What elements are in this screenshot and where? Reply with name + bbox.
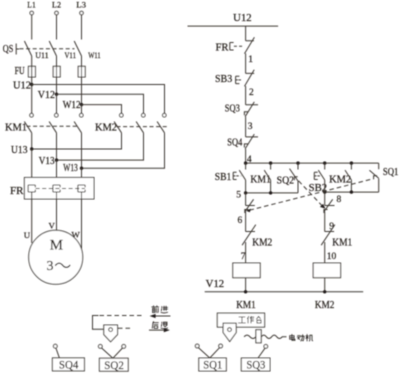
wire 6 — [245, 211, 247, 231]
worktable box — [217, 313, 264, 327]
wire 3 — [245, 117, 247, 137]
dog (cam) left — [104, 325, 118, 342]
switch QS — [3, 41, 82, 56]
limit switch SQ1 NC contact (left leg) — [245, 193, 255, 213]
svg-text:W13: W13 — [63, 163, 77, 174]
svg-text:L2: L2 — [52, 0, 61, 10]
arrow forward (left) — [150, 314, 171, 318]
node W12 — [63, 100, 83, 111]
wire 2 — [245, 86, 247, 105]
svg-text:3: 3 — [248, 122, 253, 132]
contactor aux KM1 (self-hold NO) — [250, 163, 271, 193]
svg-text:SQ4: SQ4 — [227, 138, 243, 149]
node 8 rail — [325, 191, 379, 193]
svg-text:1: 1 — [248, 55, 253, 65]
svg-text:V13: V13 — [39, 156, 55, 167]
wire nodes to KM1 contacts — [32, 85, 82, 114]
svg-text:6: 6 — [238, 216, 243, 226]
label gongzuotai (worktable) — [238, 316, 261, 323]
svg-text:KM1: KM1 — [5, 123, 27, 134]
linkage dash SQ1 — [246, 179, 373, 213]
limit switch SQ2 (NO) — [277, 163, 298, 193]
node U12 (control) — [188, 13, 279, 26]
junction dots on V12 bus — [244, 290, 326, 293]
label houtui (backward) — [152, 322, 167, 329]
svg-text:KM2: KM2 — [315, 300, 335, 311]
node 5 rail — [246, 192, 298, 194]
thermal contact FR (NC) — [216, 37, 255, 53]
svg-text:8: 8 — [337, 195, 342, 205]
svg-text:SQ2: SQ2 — [104, 360, 124, 372]
pushbutton SB2 (reverse start, NO) — [309, 163, 328, 194]
svg-text:KM2: KM2 — [252, 238, 272, 249]
wire 9 — [324, 211, 326, 231]
wire FR to motor — [32, 192, 82, 250]
wire coil KM1 to V12 — [245, 278, 247, 292]
wire U12 to FR contact — [245, 26, 247, 41]
limit switch SQ2 NC contact (right leg) — [324, 192, 335, 213]
contactor interlock KM2 (NC) — [242, 225, 272, 263]
wire KM2 c1 to node U13 — [32, 133, 122, 149]
thermal relay FR heaters — [10, 178, 94, 200]
svg-text:SQ4: SQ4 — [59, 360, 79, 372]
svg-text:U12: U12 — [13, 81, 31, 92]
wire L1 drop — [31, 15, 33, 40]
junction dots on node 5 rail — [244, 191, 247, 194]
wire U12 to KM2 contact 3 — [32, 85, 165, 114]
contactor KM2 main contacts — [95, 113, 168, 133]
limit switch SQ4 (NC) — [227, 134, 258, 149]
svg-text:W11: W11 — [88, 50, 101, 60]
node U12 — [13, 81, 33, 92]
pushbutton SB1 (forward start, NO) — [215, 163, 246, 193]
limit switch SQ3 (physical) — [241, 345, 270, 372]
motor M 3~ — [29, 230, 83, 284]
svg-text:SB3: SB3 — [215, 74, 232, 85]
wire QS to fuses — [32, 56, 82, 66]
wire fuse to nodes — [32, 77, 82, 105]
svg-text:V12: V12 — [206, 279, 225, 290]
label qianjin (forward) — [152, 306, 168, 313]
svg-text:4: 4 — [247, 155, 252, 165]
node V13 — [39, 156, 58, 167]
wire V12 to KM2 contact 2 — [57, 94, 144, 113]
svg-text:10: 10 — [327, 252, 337, 262]
svg-text:L1: L1 — [27, 0, 36, 10]
wire KM1 c2 to node V13 — [56, 133, 58, 160]
linkage dash SQ2 — [299, 181, 326, 209]
limit switch SQ1 (NO) — [369, 163, 398, 192]
svg-text:SQ1: SQ1 — [203, 360, 222, 372]
wire KM2 c3 to node W13 — [82, 133, 165, 168]
dog bracket (moving dashed outline) — [93, 316, 143, 330]
svg-text:M: M — [50, 238, 63, 254]
svg-text:SQ2: SQ2 — [277, 176, 295, 187]
motor coupling — [244, 330, 286, 343]
label diandongji (motor) — [290, 334, 313, 341]
arrow backward (right) — [149, 328, 170, 332]
svg-text:W12: W12 — [63, 100, 81, 111]
svg-text:U: U — [24, 230, 31, 240]
svg-text:FR: FR — [10, 186, 24, 197]
svg-text:KM1: KM1 — [236, 300, 256, 311]
contactor KM1 main contacts — [5, 113, 83, 133]
wire KM1 c1 to node U13 — [31, 133, 33, 149]
svg-text:V11: V11 — [65, 50, 77, 60]
wire 1 — [245, 53, 247, 73]
svg-text:U13: U13 — [11, 145, 28, 156]
contactor interlock KM1 (NC) — [321, 225, 352, 263]
svg-text:3: 3 — [47, 259, 54, 274]
svg-text:V: V — [49, 221, 56, 231]
svg-text:KM1: KM1 — [332, 238, 352, 249]
svg-text:FR: FR — [216, 43, 229, 54]
svg-text:L3: L3 — [76, 0, 86, 10]
wire L3 drop — [81, 15, 83, 40]
wire L2 drop — [56, 15, 58, 40]
wire KM2 c2 to node V13 — [57, 133, 144, 160]
limit switch SQ1 (physical) — [195, 344, 226, 372]
fuse FU (three) — [15, 66, 86, 77]
node U13 — [11, 145, 33, 156]
limit switch SQ2 (physical) — [98, 345, 128, 372]
svg-text:5: 5 — [236, 191, 241, 201]
dog (cam) right — [223, 323, 236, 341]
junction dots on node 8 rail — [323, 190, 326, 193]
coil KM2 — [313, 263, 340, 278]
svg-text:FU: FU — [15, 66, 25, 77]
svg-text:SQ3: SQ3 — [246, 360, 265, 372]
node V12 — [38, 90, 58, 101]
junction dots on bus 4 — [244, 161, 247, 164]
node L3 — [76, 0, 86, 15]
svg-text:V12: V12 — [38, 90, 55, 101]
wire nodes to FR — [32, 149, 82, 185]
svg-text:U11: U11 — [35, 50, 49, 60]
wire coil KM2 to V12 — [324, 278, 326, 292]
node L2 — [52, 0, 61, 15]
svg-text:SQ1: SQ1 — [383, 167, 399, 178]
svg-text:2: 2 — [249, 88, 254, 98]
wire W12 to KM2 contact 1 — [82, 105, 122, 114]
svg-text:7: 7 — [241, 252, 246, 262]
svg-text:KM2: KM2 — [329, 175, 351, 186]
svg-text:QS: QS — [3, 44, 14, 55]
svg-text:SB1: SB1 — [215, 172, 232, 183]
node W13 — [63, 163, 83, 174]
node V12 bus — [205, 279, 364, 292]
pushbutton SB3 (stop, NC) — [215, 70, 254, 86]
limit switch SQ4 (physical) — [52, 344, 84, 371]
svg-text:SQ3: SQ3 — [225, 104, 240, 115]
wire 4 and bus node 4 — [246, 149, 379, 163]
coil KM1 — [233, 263, 260, 278]
wire KM1 c3 to node W13 — [81, 133, 83, 168]
contactor aux KM2 (self-hold NO) — [329, 163, 351, 192]
node L1 — [27, 0, 36, 15]
limit switch SQ3 (NC) — [225, 102, 258, 117]
svg-text:KM2: KM2 — [95, 123, 117, 134]
svg-text:U12: U12 — [233, 13, 252, 24]
